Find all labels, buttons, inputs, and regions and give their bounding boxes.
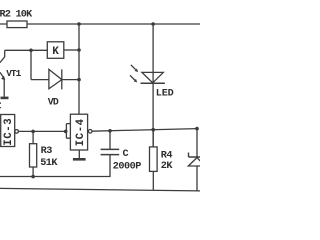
- resistor R3: [30, 144, 37, 167]
- LED arrow 1 head: [135, 69, 139, 73]
- zener diode VS cathode bar: [189, 153, 201, 158]
- svg-text:LED: LED: [156, 89, 174, 100]
- wire zener bottom lead: [196, 166, 198, 191]
- node dot R3 top: [31, 130, 35, 134]
- relay K1 box: [47, 42, 64, 59]
- wire R3 bottom lead: [32, 167, 34, 177]
- LED arrow 1: [131, 65, 136, 70]
- VT1 emitter arrowhead: [1, 76, 5, 81]
- ground (IC-4): [73, 158, 86, 161]
- LED triangle: [142, 72, 163, 83]
- wire vertical x31 (K node down to VD): [30, 50, 32, 79]
- IC-4 input bracket pins: [66, 124, 70, 139]
- svg-text:2000P: 2000P: [113, 162, 141, 173]
- wire IC-4 ground stub: [78, 150, 80, 158]
- transistor VT1 collector lead: [0, 50, 5, 62]
- node dot C top: [108, 129, 112, 133]
- resistor R4: [150, 147, 158, 172]
- node dot zener top: [195, 127, 199, 131]
- svg-text:IC-4: IC-4: [75, 118, 87, 146]
- capacitor C plates: [101, 149, 120, 154]
- node dot K right: [77, 48, 81, 52]
- wire VD anode: [31, 79, 49, 81]
- node dot R3 bottom: [31, 175, 35, 179]
- svg-text:2K: 2K: [161, 161, 174, 172]
- zener diode VS triangle: [188, 158, 205, 166]
- wire IC-3 output to IC-4 input: [18, 130, 66, 132]
- wire top supply rail: [0, 23, 200, 25]
- wire K right to x79: [64, 49, 79, 51]
- svg-text:K: K: [52, 46, 59, 58]
- op-amp gate IC-3 box: [1, 115, 15, 147]
- LED arrow 2: [130, 75, 135, 80]
- node dot LED/R4: [151, 128, 155, 132]
- IC-4 output bubble: [88, 130, 92, 134]
- wire C top lead: [109, 131, 111, 150]
- node dot rail/LED: [151, 22, 155, 26]
- IC-3 output bubble: [15, 130, 19, 134]
- node dot collector/K/VD: [29, 49, 33, 53]
- op-amp gate IC-4 box: [70, 114, 87, 150]
- node dot rail/x79: [77, 22, 81, 26]
- wire C bottom lead and ground return line: [0, 155, 110, 177]
- LED arrow 2 head: [134, 79, 138, 83]
- svg-text:VT1: VT1: [6, 68, 21, 79]
- svg-text:51K: 51K: [40, 158, 58, 169]
- diode VD: [49, 69, 62, 89]
- wire LED branch vertical x153: [152, 24, 154, 147]
- wire zener top lead: [196, 129, 198, 157]
- transistor VT1 emitter lead: [0, 72, 4, 97]
- IC-3 left cut pin stub 2: [0, 107, 1, 109]
- ground (VT1 emitter): [1, 97, 9, 100]
- svg-text:C: C: [123, 149, 129, 160]
- svg-text:R4: R4: [161, 150, 173, 161]
- IC-3 left cut pin stub 1: [0, 102, 1, 104]
- wire R4 top lead: [152, 130, 154, 147]
- wire VD cathode to x79: [62, 79, 79, 81]
- svg-text:R2 10K: R2 10K: [0, 10, 33, 21]
- wire R4 bottom lead: [152, 171, 154, 190]
- svg-text:R3: R3: [41, 146, 53, 157]
- LED cathode bar: [141, 82, 165, 84]
- svg-text:IC-3: IC-3: [3, 118, 15, 146]
- resistor R2: [7, 21, 27, 28]
- svg-text:VD: VD: [48, 97, 59, 108]
- wire bottom rail: [0, 188, 200, 191]
- wire IC-4 output bus: [92, 129, 197, 132]
- node dot VD right: [77, 78, 81, 82]
- wire vertical drop x79 (rail to IC-4 top): [78, 24, 80, 114]
- wire collector to relay K: [5, 49, 48, 51]
- wire R3 top lead: [32, 131, 34, 143]
- node dot IC-4 input: [64, 130, 68, 134]
